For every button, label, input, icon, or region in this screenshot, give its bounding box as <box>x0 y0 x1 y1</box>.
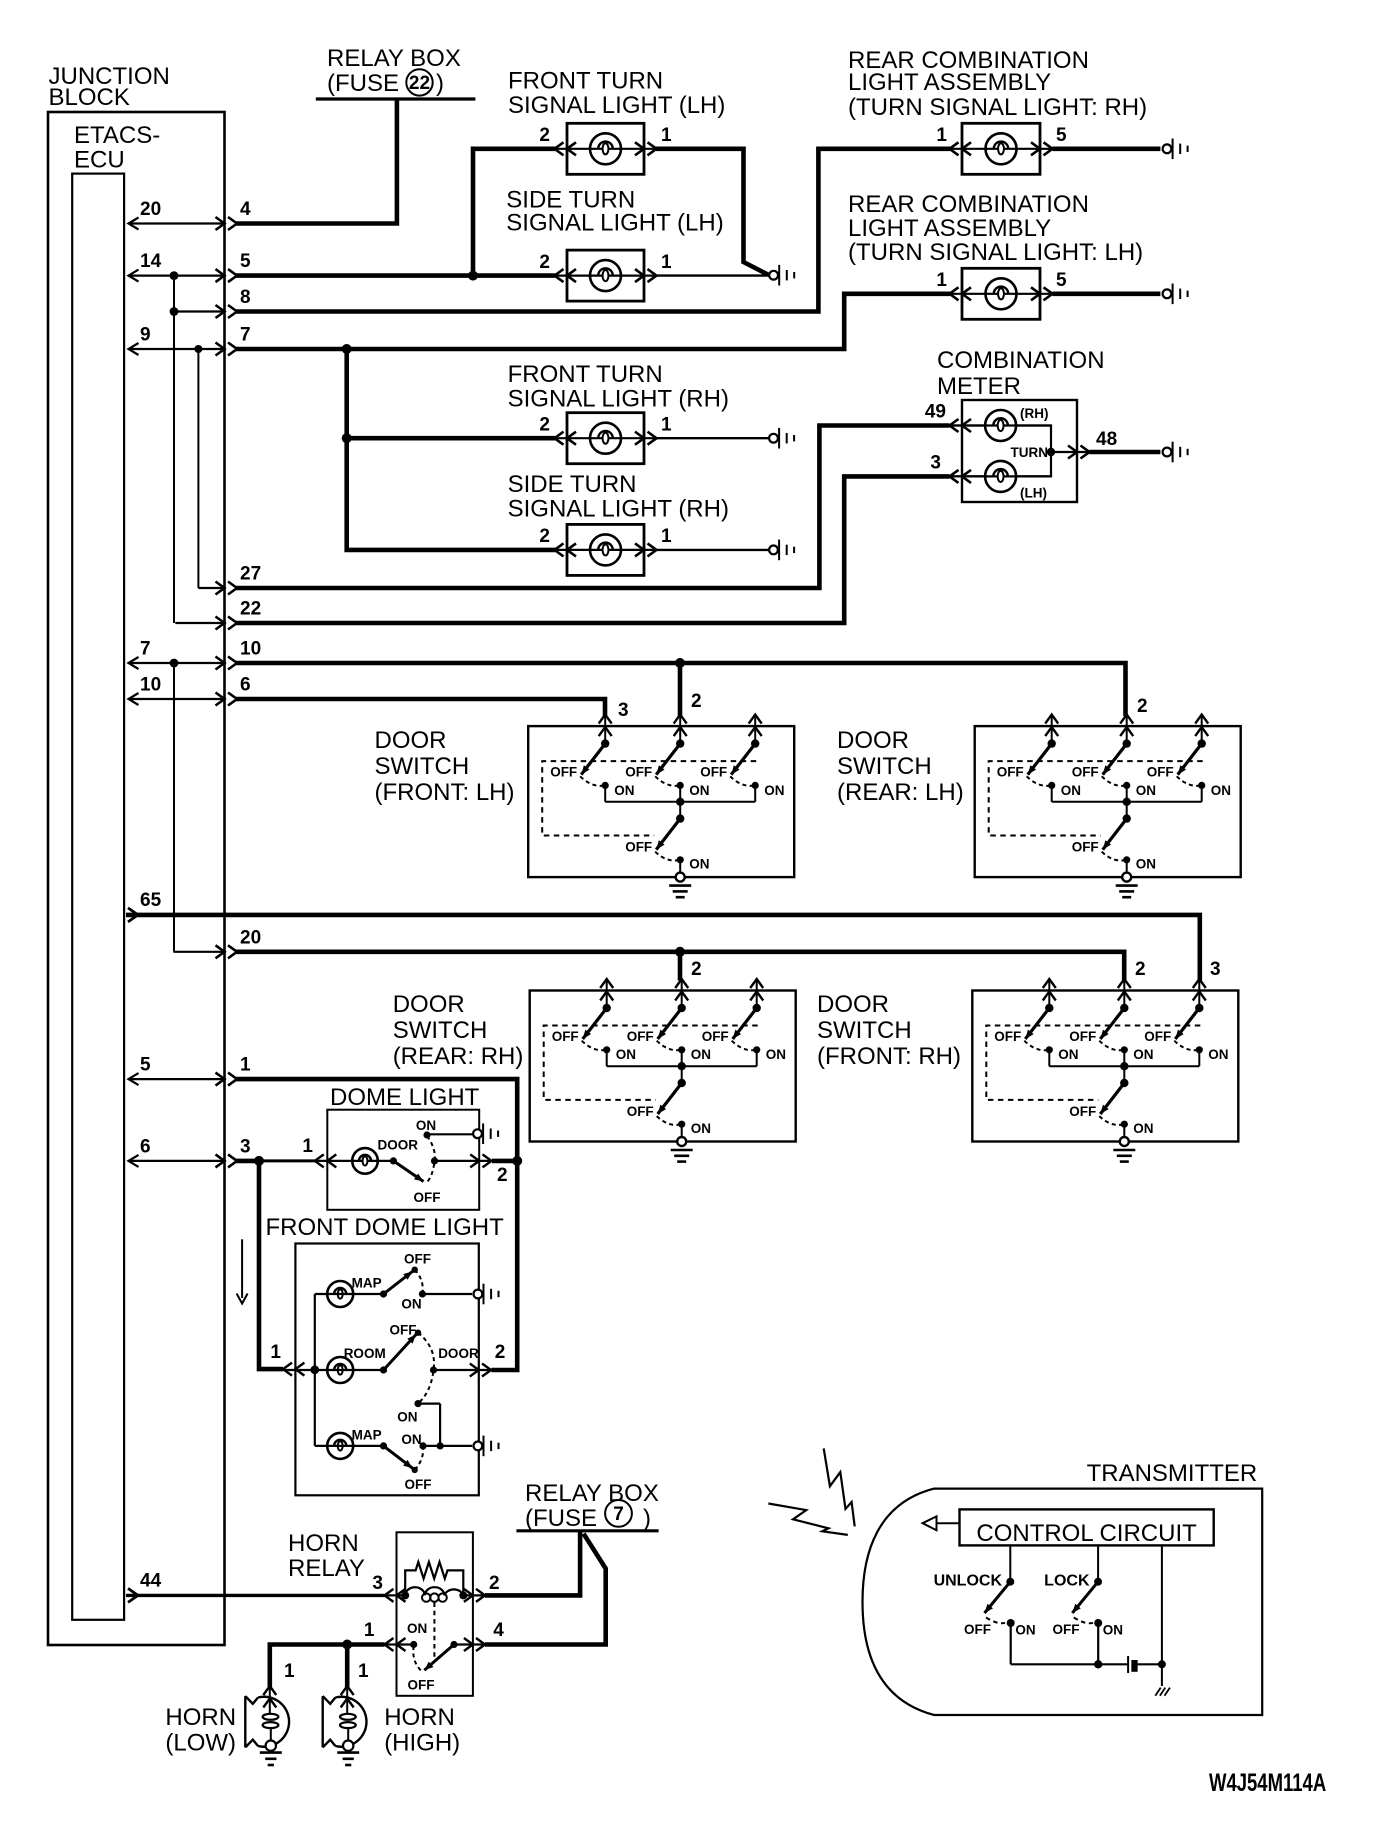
svg-text:2: 2 <box>539 414 550 435</box>
svg-text:1: 1 <box>364 1620 375 1641</box>
svg-text:OFF: OFF <box>1053 1622 1080 1637</box>
svg-text:14: 14 <box>140 251 162 272</box>
svg-text:ETACS-: ETACS- <box>74 122 160 149</box>
svg-text:ON: ON <box>614 783 634 798</box>
svg-text:ON: ON <box>401 1432 421 1447</box>
svg-text:ON: ON <box>1103 1623 1123 1638</box>
svg-text:(FRONT: RH): (FRONT: RH) <box>817 1043 961 1070</box>
svg-text:FRONT DOME LIGHT: FRONT DOME LIGHT <box>266 1214 505 1241</box>
svg-text:OFF: OFF <box>627 1029 654 1044</box>
svg-text:LIGHT ASSEMBLY: LIGHT ASSEMBLY <box>848 69 1051 96</box>
svg-text:5: 5 <box>140 1055 151 1076</box>
svg-text:22: 22 <box>240 599 261 620</box>
svg-text:6: 6 <box>140 1136 151 1157</box>
svg-text:1: 1 <box>284 1661 295 1682</box>
svg-text:DOOR: DOOR <box>817 991 889 1018</box>
svg-text:OFF: OFF <box>1072 840 1099 855</box>
svg-text:2: 2 <box>1135 959 1146 980</box>
svg-text:2: 2 <box>539 252 550 273</box>
svg-text:OFF: OFF <box>408 1677 435 1692</box>
svg-text:OFF: OFF <box>404 1252 431 1267</box>
svg-text:1: 1 <box>240 1055 251 1076</box>
svg-text:1: 1 <box>358 1661 369 1682</box>
svg-text:ON: ON <box>407 1621 427 1636</box>
svg-text:TRANSMITTER: TRANSMITTER <box>1087 1460 1258 1487</box>
svg-text:ON: ON <box>1136 783 1156 798</box>
svg-text:TURN: TURN <box>1011 445 1049 460</box>
svg-text:HORN: HORN <box>384 1704 455 1731</box>
svg-text:(LOW): (LOW) <box>165 1730 236 1757</box>
svg-text:DOOR: DOOR <box>378 1138 419 1153</box>
svg-text:OFF: OFF <box>414 1190 441 1205</box>
svg-text:OFF: OFF <box>625 840 652 855</box>
svg-text:ECU: ECU <box>74 147 125 174</box>
svg-text:(FUSE: (FUSE <box>327 70 399 97</box>
svg-text:MAP: MAP <box>352 1276 382 1291</box>
svg-text:1: 1 <box>936 125 947 146</box>
svg-text:COMBINATION: COMBINATION <box>937 347 1105 374</box>
svg-text:ON: ON <box>691 1047 711 1062</box>
svg-text:OFF: OFF <box>552 1029 579 1044</box>
svg-text:(FRONT: LH): (FRONT: LH) <box>375 779 515 806</box>
svg-text:W4J54M114A: W4J54M114A <box>1209 1768 1326 1796</box>
svg-text:3: 3 <box>930 452 941 473</box>
svg-text:OFF: OFF <box>390 1322 417 1337</box>
svg-text:OFF: OFF <box>625 765 652 780</box>
svg-text:(HIGH): (HIGH) <box>384 1730 460 1757</box>
svg-text:22: 22 <box>409 73 430 94</box>
svg-text:5: 5 <box>1056 270 1067 291</box>
svg-text:ON: ON <box>1058 1047 1078 1062</box>
svg-text:65: 65 <box>140 890 162 911</box>
svg-text:OFF: OFF <box>1069 1029 1096 1044</box>
svg-text:2: 2 <box>497 1165 508 1186</box>
svg-text:FRONT TURN: FRONT TURN <box>508 68 663 95</box>
svg-text:SWITCH: SWITCH <box>375 753 470 780</box>
svg-text:(LH): (LH) <box>1020 486 1047 501</box>
svg-text:2: 2 <box>539 526 550 547</box>
svg-text:ON: ON <box>689 857 709 872</box>
svg-text:ON: ON <box>764 783 784 798</box>
svg-text:SWITCH: SWITCH <box>817 1017 912 1044</box>
svg-text:OFF: OFF <box>1144 1029 1171 1044</box>
svg-text:BLOCK: BLOCK <box>49 84 130 111</box>
svg-text:44: 44 <box>140 1570 162 1591</box>
svg-text:OFF: OFF <box>627 1104 654 1119</box>
svg-text:49: 49 <box>925 402 946 423</box>
svg-text:OFF: OFF <box>405 1477 432 1492</box>
svg-text:OFF: OFF <box>1069 1104 1096 1119</box>
svg-text:ON: ON <box>691 1121 711 1136</box>
svg-text:(TURN SIGNAL LIGHT: LH): (TURN SIGNAL LIGHT: LH) <box>848 239 1143 266</box>
svg-text:DOME LIGHT: DOME LIGHT <box>330 1084 480 1111</box>
svg-text:(FUSE: (FUSE <box>525 1505 597 1532</box>
svg-text:LIGHT ASSEMBLY: LIGHT ASSEMBLY <box>848 215 1051 242</box>
svg-text:10: 10 <box>240 639 261 660</box>
svg-text:(TURN SIGNAL LIGHT: RH): (TURN SIGNAL LIGHT: RH) <box>848 94 1147 121</box>
svg-text:UNLOCK: UNLOCK <box>934 1573 1003 1590</box>
svg-text:ON: ON <box>1211 783 1231 798</box>
svg-text:RELAY BOX: RELAY BOX <box>327 45 461 72</box>
svg-text:2: 2 <box>691 691 702 712</box>
svg-text:2: 2 <box>495 1342 506 1363</box>
svg-text:2: 2 <box>539 125 550 146</box>
svg-text:9: 9 <box>140 325 151 346</box>
svg-text:SIGNAL LIGHT (LH): SIGNAL LIGHT (LH) <box>508 92 725 119</box>
svg-text:DOOR: DOOR <box>375 727 447 754</box>
svg-text:OFF: OFF <box>702 1029 729 1044</box>
svg-text:FRONT TURN: FRONT TURN <box>508 361 663 388</box>
svg-text:27: 27 <box>240 564 261 585</box>
svg-text:CONTROL CIRCUIT: CONTROL CIRCUIT <box>976 1520 1197 1547</box>
svg-text:SIGNAL LIGHT (RH): SIGNAL LIGHT (RH) <box>508 386 729 413</box>
svg-text:20: 20 <box>240 927 261 948</box>
svg-text:ON: ON <box>689 783 709 798</box>
svg-text:1: 1 <box>302 1136 313 1157</box>
svg-text:ON: ON <box>1133 1121 1153 1136</box>
svg-text:SWITCH: SWITCH <box>837 753 932 780</box>
svg-text:HORN: HORN <box>165 1704 236 1731</box>
svg-text:3: 3 <box>372 1573 383 1594</box>
svg-text:7: 7 <box>140 639 151 660</box>
svg-text:OFF: OFF <box>997 765 1024 780</box>
svg-text:20: 20 <box>140 199 161 220</box>
svg-text:SIGNAL LIGHT (LH): SIGNAL LIGHT (LH) <box>506 210 723 237</box>
svg-text:MAP: MAP <box>352 1428 382 1443</box>
svg-text:ROOM: ROOM <box>344 1346 386 1361</box>
svg-text:1: 1 <box>661 125 672 146</box>
svg-text:OFF: OFF <box>550 765 577 780</box>
svg-text:): ) <box>643 1505 651 1532</box>
svg-text:7: 7 <box>240 325 251 346</box>
svg-text:ON: ON <box>1136 857 1156 872</box>
svg-text:ON: ON <box>766 1047 786 1062</box>
svg-text:SIDE TURN: SIDE TURN <box>508 471 637 498</box>
svg-text:2: 2 <box>1137 696 1148 717</box>
svg-text:3: 3 <box>1210 959 1221 980</box>
svg-text:DOOR: DOOR <box>837 727 909 754</box>
svg-text:ON: ON <box>416 1118 436 1133</box>
svg-text:5: 5 <box>240 251 251 272</box>
svg-text:1: 1 <box>661 414 672 435</box>
svg-text:OFF: OFF <box>964 1622 991 1637</box>
svg-text:ON: ON <box>401 1296 421 1311</box>
svg-text:SIGNAL LIGHT (RH): SIGNAL LIGHT (RH) <box>508 496 729 523</box>
svg-text:1: 1 <box>661 526 672 547</box>
svg-text:2: 2 <box>489 1573 500 1594</box>
svg-text:OFF: OFF <box>700 765 727 780</box>
svg-text:RELAY: RELAY <box>288 1555 365 1582</box>
svg-text:DOOR: DOOR <box>438 1346 479 1361</box>
svg-text:2: 2 <box>691 959 702 980</box>
svg-text:1: 1 <box>936 270 947 291</box>
svg-text:7: 7 <box>613 1504 624 1525</box>
svg-text:HORN: HORN <box>288 1530 359 1557</box>
svg-text:(RH): (RH) <box>1020 406 1049 421</box>
svg-text:ON: ON <box>397 1410 417 1425</box>
svg-text:1: 1 <box>661 252 672 273</box>
svg-text:3: 3 <box>240 1136 251 1157</box>
svg-text:8: 8 <box>240 287 251 308</box>
svg-text:ON: ON <box>1133 1047 1153 1062</box>
svg-text:(REAR: RH): (REAR: RH) <box>393 1043 524 1070</box>
svg-text:4: 4 <box>240 199 251 220</box>
svg-text:48: 48 <box>1096 429 1117 450</box>
svg-text:ON: ON <box>1208 1047 1228 1062</box>
svg-text:ON: ON <box>1061 783 1081 798</box>
svg-text:): ) <box>436 70 444 97</box>
svg-text:6: 6 <box>240 675 251 696</box>
svg-text:4: 4 <box>493 1620 504 1641</box>
svg-text:SWITCH: SWITCH <box>393 1017 488 1044</box>
svg-text:LOCK: LOCK <box>1044 1573 1090 1590</box>
svg-text:ON: ON <box>1015 1623 1035 1638</box>
svg-text:OFF: OFF <box>1072 765 1099 780</box>
svg-text:1: 1 <box>270 1342 281 1363</box>
svg-text:5: 5 <box>1056 125 1067 146</box>
svg-text:OFF: OFF <box>1147 765 1174 780</box>
svg-text:REAR COMBINATION: REAR COMBINATION <box>848 191 1089 218</box>
svg-text:RELAY BOX: RELAY BOX <box>525 1480 659 1507</box>
svg-text:DOOR: DOOR <box>393 991 465 1018</box>
svg-text:METER: METER <box>937 373 1021 400</box>
svg-text:(REAR: LH): (REAR: LH) <box>837 779 964 806</box>
svg-text:10: 10 <box>140 675 161 696</box>
svg-text:3: 3 <box>618 700 629 721</box>
svg-text:ON: ON <box>616 1047 636 1062</box>
svg-text:OFF: OFF <box>994 1029 1021 1044</box>
